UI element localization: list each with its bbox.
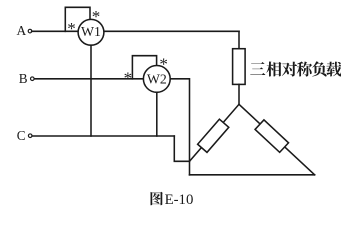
wire load top drop xyxy=(238,31,240,48)
svg-text:*: * xyxy=(124,68,133,87)
resistor load phase 3 (right diagonal) xyxy=(255,120,288,152)
svg-text:*: * xyxy=(67,19,76,38)
terminal B xyxy=(31,77,35,81)
wire W2 voltage-coil loop xyxy=(132,56,156,79)
wire W1 to load corner xyxy=(104,30,239,32)
terminal A xyxy=(28,29,32,33)
wire C step down to left load node xyxy=(174,136,189,161)
wire delta right side xyxy=(239,104,315,175)
wire W2 right side down to load node xyxy=(170,79,189,175)
label three-phase symmetric load xyxy=(250,62,265,75)
svg-text:*: * xyxy=(92,7,101,26)
svg-text:A: A xyxy=(17,23,27,38)
wattmeter W2 xyxy=(143,66,170,93)
wire W1 voltage-coil loop xyxy=(65,7,90,31)
wattmeter W1 xyxy=(78,19,104,45)
svg-text:*: * xyxy=(159,54,168,73)
wire W1 bottom vertical to C line xyxy=(90,45,92,136)
wire B to W2 xyxy=(34,78,143,80)
wire resistor to delta vertex xyxy=(238,84,240,104)
wire C line xyxy=(32,135,174,137)
wire A to W1 xyxy=(32,30,79,32)
svg-text:C: C xyxy=(17,128,26,143)
svg-text:W1: W1 xyxy=(81,24,101,39)
wire load bottom xyxy=(190,174,315,176)
svg-text:W2: W2 xyxy=(147,71,167,86)
wire delta left side xyxy=(190,104,240,161)
svg-text:E-10: E-10 xyxy=(165,192,194,208)
wire W2 bottom vertical to C line xyxy=(156,92,158,136)
svg-text:B: B xyxy=(19,71,28,86)
terminal C xyxy=(28,134,32,138)
resistor load phase 1 (vertical) xyxy=(233,49,246,85)
resistor load phase 2 (left diagonal) xyxy=(198,119,229,152)
caption figure E-10 xyxy=(151,192,163,206)
